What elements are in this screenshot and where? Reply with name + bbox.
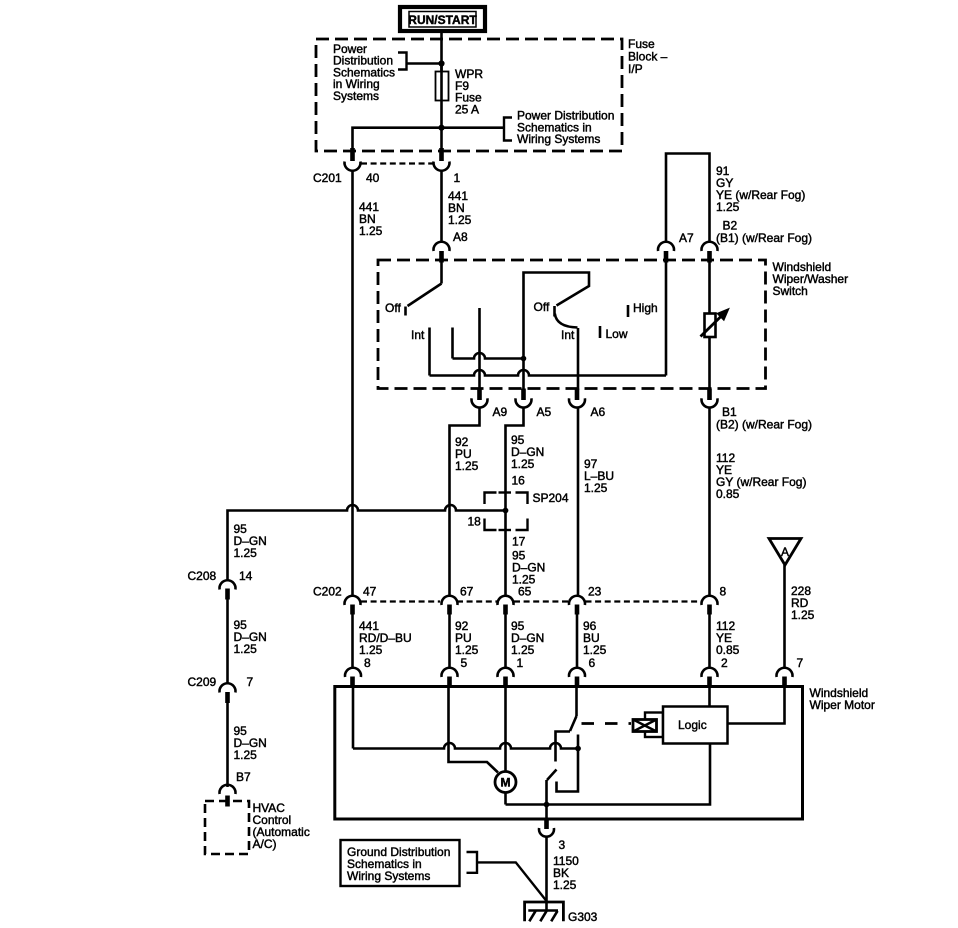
motor pin 8 connector — [345, 668, 361, 687]
svg-text:Logic: Logic — [678, 718, 707, 732]
svg-text:17: 17 — [512, 535, 526, 549]
motor pin 2 connector — [702, 668, 718, 687]
connector C202 pin 67 — [442, 596, 458, 615]
wire 1150 BK 1.25 to ground — [545, 837, 548, 912]
svg-text:1.25: 1.25 — [511, 643, 535, 657]
bus wire Int1 to A7 leg (hops over A9,A5) — [430, 370, 667, 376]
A5 hook feed wire — [524, 273, 590, 391]
svg-text:A: A — [781, 545, 789, 559]
contact tick 2 — [451, 328, 454, 359]
svg-text:23: 23 — [588, 585, 602, 599]
connector A6 — [569, 389, 585, 408]
svg-text:C209: C209 — [188, 675, 217, 689]
node: fuse output junction — [438, 125, 444, 131]
wire A5 jog to column C — [506, 407, 524, 596]
wire B2-B1 leg inside switch — [708, 262, 711, 390]
logic module box — [663, 707, 728, 744]
wire pin5 to motor brush — [449, 687, 499, 773]
High contact tick — [627, 305, 630, 317]
svg-text:0.85: 0.85 — [716, 643, 740, 657]
bracket for right note — [504, 118, 512, 141]
svg-text:6: 6 — [589, 656, 596, 670]
svg-text:Wiring Systems: Wiring Systems — [517, 132, 600, 146]
label wire 441 BN 1.25 right — [448, 189, 472, 227]
connector C201 pin 40 — [345, 148, 361, 171]
label Windshield Wiper/Washer Switch — [773, 260, 849, 298]
label wire 95 D-GN 1.25 to C208 — [234, 522, 267, 560]
svg-text:1.25: 1.25 — [511, 457, 535, 471]
Low contact tick — [599, 326, 602, 338]
node switch bus / A5 — [521, 356, 527, 362]
Off contact 2 tick — [553, 306, 556, 317]
svg-text:RUN/START: RUN/START — [408, 13, 477, 27]
svg-text:Int: Int — [411, 328, 425, 342]
label wire 95 D-GN 1.25 (C209-B7) — [234, 724, 267, 762]
svg-text:1.25: 1.25 — [455, 643, 479, 657]
svg-text:1.25: 1.25 — [234, 748, 258, 762]
splice SP204 dashed square — [485, 493, 528, 531]
wire 441 BN 1.25 (right, C201-1 to A8) — [440, 171, 443, 244]
wire 95 D-GN 1.25 — [504, 615, 507, 670]
motor pin 6 connector — [569, 668, 585, 687]
wire pin8 down inside motor — [352, 687, 355, 749]
label wire 95 D-GN 1.25 (C208-C209) — [234, 618, 267, 656]
note: Power Distribution Schematics in Wiring Systems (left) — [333, 42, 395, 103]
svg-text:1.25: 1.25 — [448, 213, 472, 227]
bus wire to A5 node (with hop over A9) — [453, 353, 524, 358]
svg-text:65: 65 — [518, 585, 532, 599]
svg-text:B7: B7 — [236, 770, 251, 784]
connector C202 pin 47 — [345, 596, 361, 615]
solenoid bowtie symbol — [633, 713, 663, 738]
svg-text:A/C): A/C) — [253, 837, 277, 851]
Off contact 1 tick — [404, 307, 407, 316]
off-page triangle A — [769, 539, 801, 566]
branch wire SP204 to C208 (hops over cols A,B) — [228, 505, 506, 580]
fuse F9 WPR 25A — [436, 64, 449, 128]
svg-text:I/P: I/P — [628, 62, 643, 76]
svg-text:SP204: SP204 — [533, 491, 569, 505]
svg-text:1.25: 1.25 — [234, 642, 258, 656]
node park contact junction — [575, 746, 581, 752]
node ground bus / park switch — [544, 802, 550, 808]
svg-text:(B2) (w/Rear Fog): (B2) (w/Rear Fog) — [716, 418, 812, 432]
note: Power Distribution Schematics in Wiring Systems (right) — [517, 109, 614, 146]
label wire 92 PU 1.25 — [455, 435, 479, 473]
connector B2 into switch — [702, 242, 718, 263]
connector B7 into HVAC — [220, 785, 236, 807]
variable resistor (washer pot) — [701, 309, 729, 337]
label wire 1150 BK 1.25 — [553, 854, 579, 892]
wire 441 BN 1.25 (left, C201-40 to C202-47) — [351, 171, 354, 597]
Windshield Wiper/Washer Switch dashed box — [378, 260, 766, 389]
label wire 112 YE GY (w/Rear Fog) 0.85 — [716, 451, 806, 501]
svg-text:C202: C202 — [313, 585, 342, 599]
switch arm 2 (curved) to A6 — [555, 314, 578, 328]
bracket for left note — [398, 53, 407, 70]
svg-text:5: 5 — [461, 656, 468, 670]
wire fuse output to C201 pins 40 and 1 — [353, 128, 442, 149]
svg-text:Systems: Systems — [333, 89, 379, 103]
svg-text:A6: A6 — [591, 405, 606, 419]
svg-text:A9: A9 — [493, 405, 508, 419]
wire pin7 to logic right side — [728, 687, 785, 724]
park switch arm 2 — [547, 770, 557, 781]
bracket for ground note — [467, 852, 478, 873]
svg-text:1.25: 1.25 — [716, 200, 740, 214]
park contact hook wire — [557, 749, 579, 792]
connector C202 pin 23 — [569, 596, 585, 615]
wire pin2 to logic — [708, 687, 711, 707]
svg-text:Wiper Motor: Wiper Motor — [810, 698, 875, 712]
connector A5 — [516, 389, 532, 408]
svg-text:Low: Low — [606, 327, 628, 341]
park switch arm 1 — [556, 716, 577, 762]
Windshield Wiper Motor box — [335, 687, 803, 820]
motor pin 1 connector — [498, 668, 514, 687]
wire A8 into switch arm — [440, 262, 443, 284]
label Windshield Wiper Motor — [810, 686, 875, 712]
svg-text:Int: Int — [561, 328, 575, 342]
label wire 95 D-GN 1.25 — [511, 433, 544, 471]
node: fuse feed junction — [438, 60, 444, 66]
svg-text:2: 2 — [721, 656, 728, 670]
wire C208 to C209 — [226, 600, 229, 684]
label HVAC Control (Automatic A/C) — [253, 801, 310, 851]
wire 441 RD/D-BU 1.25 — [351, 615, 354, 670]
wire A6 inside switch — [577, 328, 580, 390]
connector A8 into switch — [434, 242, 450, 263]
Int contact 1 tick — [428, 328, 431, 376]
svg-text:A8: A8 — [453, 230, 468, 244]
label B1 (B2) (w/Rear Fog) — [716, 405, 812, 432]
Fuse Block I/P dashed box — [316, 39, 622, 151]
label wire 97 L-BU 1.25 — [584, 457, 614, 495]
motor M — [495, 772, 516, 793]
svg-text:3: 3 — [559, 838, 566, 852]
svg-text:Switch: Switch — [773, 284, 808, 298]
dashed mechanical link to logic solenoid — [582, 722, 632, 725]
svg-text:High: High — [633, 301, 658, 315]
connector A7 into switch — [658, 242, 674, 263]
ground bus wire to logic — [506, 744, 711, 805]
ground G303 symbol — [525, 902, 564, 921]
HVAC Control dashed box — [205, 801, 249, 854]
Ground Distribution note box — [341, 840, 460, 886]
connector A9 — [472, 389, 488, 408]
svg-text:25 A: 25 A — [455, 102, 479, 116]
svg-text:1.25: 1.25 — [791, 608, 815, 622]
motor pin 5 connector — [442, 668, 458, 687]
svg-text:A7: A7 — [679, 231, 694, 245]
wire 112 YE 0.85 — [708, 615, 711, 670]
svg-text:1: 1 — [454, 171, 461, 185]
svg-text:Off: Off — [385, 301, 401, 315]
A9 contact wire inside switch — [478, 308, 481, 390]
ground wire from park switch common — [545, 780, 548, 820]
wire pin1 to motor — [504, 687, 507, 772]
svg-text:8: 8 — [720, 585, 727, 599]
svg-text:14: 14 — [239, 569, 253, 583]
svg-text:Off: Off — [534, 300, 550, 314]
wire 96 BU 1.25 — [576, 615, 579, 670]
svg-text:C201: C201 — [313, 171, 342, 185]
wire 92 PU 1.25 — [448, 615, 451, 670]
connector C201 dashed interface line — [361, 162, 433, 164]
wire B1 down — [708, 407, 711, 596]
connector C202 pin 8 — [702, 596, 718, 615]
connector C201 pin 1 — [434, 148, 450, 171]
wire motor to ground bus — [504, 793, 507, 805]
connector C208 — [220, 580, 236, 599]
svg-text:8: 8 — [364, 656, 371, 670]
svg-text:A5: A5 — [537, 405, 552, 419]
motor pin 7 connector — [776, 668, 792, 687]
wire A6 down — [577, 407, 580, 596]
label fuse WPR F9 Fuse 25 A — [455, 67, 483, 116]
RUN/START hot-in-run box — [400, 7, 485, 31]
label wire 91 GY YE (w/Rear Fog) 1.25 — [716, 164, 805, 214]
park switch contact stub — [577, 735, 580, 749]
svg-text:(B1) (w/Rear Fog): (B1) (w/Rear Fog) — [716, 231, 812, 245]
switch arm 1 (wiper on/off) — [408, 284, 442, 307]
wire bridge A7 to B2 — [666, 154, 710, 244]
connector C202 pin 65 — [498, 596, 514, 615]
leader line ground note to ground wire — [477, 862, 547, 901]
wire 228 RD 1.25 — [783, 565, 786, 669]
svg-text:47: 47 — [363, 585, 377, 599]
svg-text:1: 1 — [517, 656, 524, 670]
wire from RUN/START to fuse F9 — [440, 31, 443, 72]
connector C202 dashed interface line — [361, 600, 701, 602]
connector B1 — [702, 389, 718, 408]
svg-text:0.85: 0.85 — [716, 487, 740, 501]
wire A7 leg inside switch — [665, 262, 668, 376]
connector C209 — [220, 683, 236, 703]
svg-text:C208: C208 — [188, 569, 217, 583]
svg-text:1.25: 1.25 — [584, 481, 608, 495]
svg-text:7: 7 — [247, 675, 254, 689]
wire C209 to B7 — [226, 703, 229, 787]
svg-text:7: 7 — [797, 656, 804, 670]
svg-text:Wiring Systems: Wiring Systems — [347, 869, 430, 883]
svg-text:1.25: 1.25 — [583, 643, 607, 657]
svg-text:40: 40 — [366, 171, 380, 185]
svg-text:18: 18 — [468, 515, 482, 529]
svg-text:1.25: 1.25 — [234, 546, 258, 560]
svg-text:1.25: 1.25 — [359, 643, 383, 657]
svg-text:1.25: 1.25 — [455, 459, 479, 473]
label wire 95 D-GN 1.25 below SP204 — [512, 549, 545, 587]
label wire 441 BN 1.25 left — [359, 200, 383, 238]
bus wire to park switch node (hops over 3 columns) — [353, 743, 578, 749]
svg-text:67: 67 — [460, 585, 474, 599]
svg-text:M: M — [501, 776, 511, 790]
wire A9 jog to column B — [450, 407, 480, 596]
node SP204 junction — [503, 508, 509, 514]
svg-text:1.25: 1.25 — [359, 224, 383, 238]
svg-text:1.25: 1.25 — [553, 878, 577, 892]
connector motor pin 3 (ground) — [539, 819, 554, 837]
wire pin6 to park switch — [575, 687, 578, 716]
svg-text:G303: G303 — [568, 910, 598, 924]
wire bracket to junction — [407, 62, 442, 64]
label Fuse Block I/P — [628, 37, 668, 76]
label B2 (B1) (w/Rear Fog) — [716, 219, 812, 246]
svg-text:16: 16 — [512, 474, 526, 488]
